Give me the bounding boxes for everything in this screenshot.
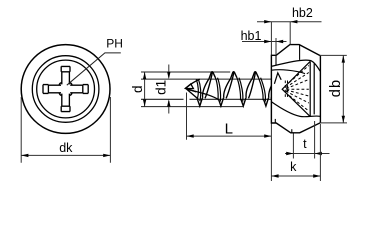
k dimension line <box>271 175 320 177</box>
t dimension line <box>285 153 330 155</box>
L extension line at tip <box>186 93 188 140</box>
head crown inner line top <box>271 70 305 74</box>
thread falling ribbons <box>196 77 265 101</box>
PH leader line <box>67 53 121 85</box>
dk dimension line <box>21 154 110 156</box>
svg-text:L: L <box>225 121 233 138</box>
svg-text:PH: PH <box>106 37 123 51</box>
bottom flat inner tick <box>291 129 293 133</box>
svg-text:hb2: hb2 <box>292 6 313 20</box>
hb2 extension line <box>289 22 291 45</box>
tip thread edge <box>186 88 197 91</box>
d1 extension/core lines <box>141 79 271 99</box>
thread top crests <box>209 72 258 79</box>
head rim tick top <box>275 56 277 66</box>
head crown silhouette top <box>271 60 320 71</box>
d1 dimension line <box>168 65 170 114</box>
thread bottom crests <box>197 98 268 106</box>
phillips recess corner nubs <box>59 83 72 96</box>
tip facet <box>186 84 194 89</box>
k extension line right <box>319 124 321 181</box>
svg-text:db: db <box>328 79 344 98</box>
hb1 tick extension <box>275 38 277 55</box>
phillips recess cross arms <box>43 66 88 111</box>
svg-text:t: t <box>303 137 307 151</box>
svg-text:hb1: hb1 <box>241 29 262 43</box>
t extension lines <box>293 121 314 159</box>
d extension/object lines (thread OD) <box>141 72 243 107</box>
last thread crest on head <box>274 73 281 84</box>
head crown silhouette bottom <box>271 102 320 117</box>
top flat corner projection <box>299 45 301 60</box>
recess hidden vertical dashes <box>285 81 287 99</box>
head rim tick bottom <box>274 119 276 123</box>
shared extension line through head left face (hb2/hb1/L/k) <box>270 22 272 181</box>
L dimension line <box>187 135 272 137</box>
db extension lines <box>320 55 347 123</box>
thread rising ribbons <box>203 72 279 99</box>
head front view: chamfer ring outer <box>32 56 99 123</box>
dk extension lines <box>21 97 110 163</box>
tip helix edge <box>187 89 218 99</box>
svg-text:dk: dk <box>59 141 73 155</box>
head front view: outer circle dk <box>21 45 110 134</box>
recess hidden radial dashes <box>286 66 309 112</box>
hb2 dimension line <box>257 21 322 23</box>
hb1 dimension line <box>242 41 287 43</box>
d dimension line <box>144 72 146 107</box>
svg-text:k: k <box>290 160 297 174</box>
screw tip <box>186 79 200 99</box>
db dimension line <box>342 55 344 123</box>
recess cone base lines <box>310 61 314 116</box>
svg-text:d: d <box>130 85 145 93</box>
screw head silhouette fill <box>271 45 320 133</box>
screw head outline <box>271 45 320 133</box>
svg-text:d1: d1 <box>153 80 168 95</box>
head front view: chamfer ring inner <box>37 60 95 118</box>
recess cone <box>282 61 310 116</box>
